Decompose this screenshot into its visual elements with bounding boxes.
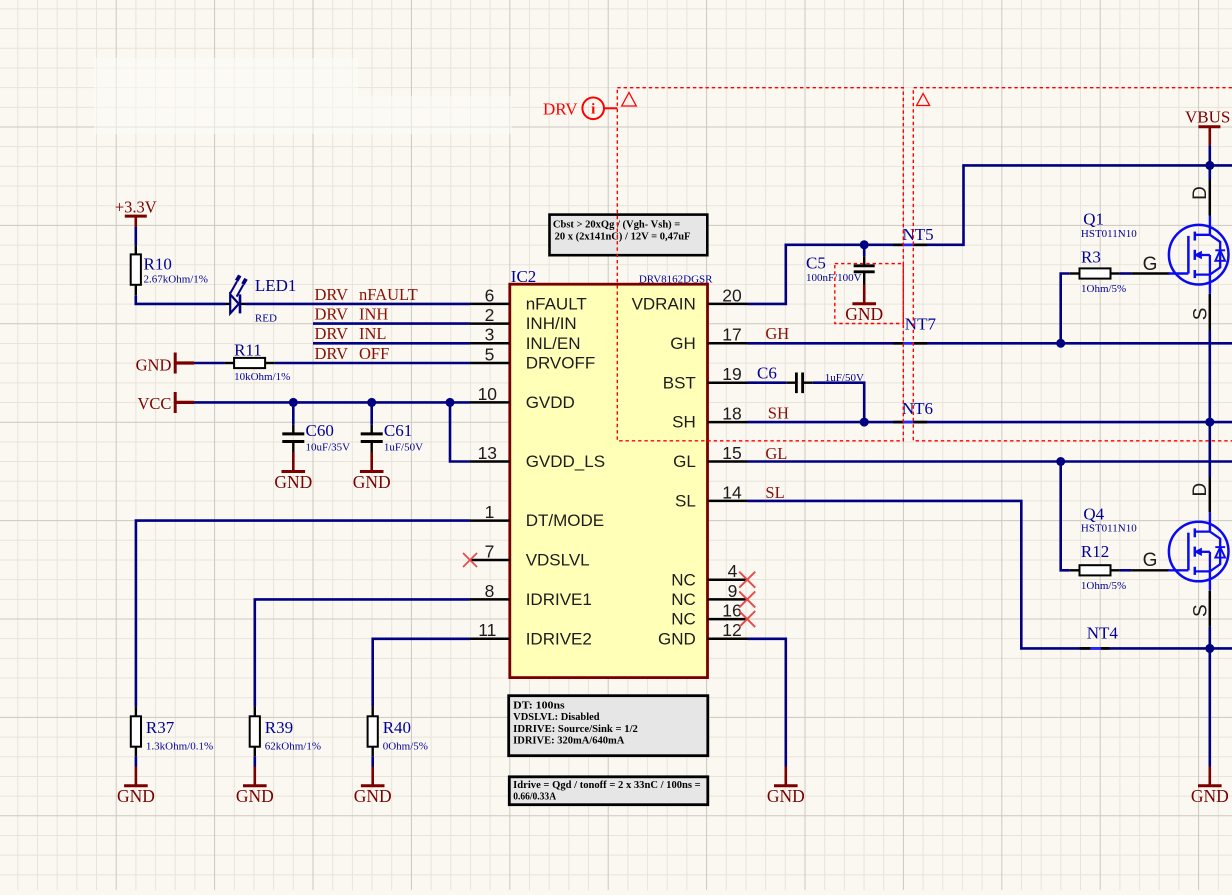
capacitor C6 [786, 382, 795, 384]
svg-text:GND: GND [136, 355, 172, 374]
IC2 pin 6 (nFAULT) [470, 303, 510, 306]
svg-text:R40: R40 [383, 718, 411, 737]
wire VBUS to NT5 rail [1209, 145, 1212, 165]
svg-text:10uF/35V: 10uF/35V [306, 442, 351, 454]
ground below C5 [863, 285, 866, 304]
ground below R37 [135, 756, 138, 766]
svg-text:10: 10 [478, 384, 498, 404]
junction GH/R3 [1056, 339, 1065, 348]
junction [289, 398, 298, 407]
Q1 source pin [1209, 294, 1212, 330]
wire pin 19 BST to C6 [748, 381, 787, 384]
svg-text:VDSLVL: VDSLVL [526, 551, 590, 570]
svg-text:20: 20 [722, 285, 742, 305]
svg-text:IDRIVE1: IDRIVE1 [526, 590, 592, 609]
ground below Q4 [1209, 767, 1212, 786]
net label NT6 anchor marker [893, 421, 903, 424]
svg-text:INH/IN: INH/IN [526, 314, 577, 333]
svg-text:10kOhm/1%: 10kOhm/1% [234, 371, 290, 383]
svg-text:i: i [591, 102, 595, 118]
resistor R11 [224, 362, 234, 364]
wire pin 18 SH to right edge [748, 421, 1232, 424]
IC2 pin 2 (INH/IN) [470, 322, 510, 325]
svg-text:NC: NC [671, 610, 696, 629]
IC2 pin 17 (GH) [708, 342, 748, 345]
svg-text:S: S [1191, 308, 1212, 321]
dashed region box 2 [913, 88, 1232, 441]
svg-text:16: 16 [722, 601, 741, 621]
resistor R37 [135, 707, 137, 717]
svg-text:GND: GND [236, 786, 274, 806]
svg-text:OFF: OFF [359, 344, 389, 363]
junction C5/NT5 [860, 240, 869, 249]
svg-text:GH: GH [670, 334, 696, 353]
svg-text:100nF/100V: 100nF/100V [806, 272, 862, 284]
ground at pin 12 [784, 767, 787, 786]
svg-text:S: S [1191, 604, 1212, 617]
wire R10 to LED1 [136, 295, 226, 304]
svg-text:NC: NC [671, 570, 696, 589]
svg-text:GVDD: GVDD [526, 393, 575, 412]
svg-text:DRVOFF: DRVOFF [526, 354, 596, 373]
svg-text:R10: R10 [144, 255, 172, 274]
svg-text:GND: GND [354, 786, 392, 806]
svg-text:GND: GND [658, 629, 696, 648]
svg-text:SL: SL [675, 492, 696, 511]
svg-text:C60: C60 [306, 421, 334, 440]
capacitor C61 [370, 402, 373, 424]
svg-text:4: 4 [728, 561, 738, 581]
note box Idrive formula [509, 777, 708, 805]
Q4 drain pin [1209, 422, 1212, 477]
note box DT/VDSLVL/IDRIVE [509, 696, 708, 756]
svg-text:DT: 100ns: DT: 100ns [513, 701, 565, 712]
junction [367, 398, 376, 407]
svg-text:R11: R11 [234, 340, 262, 359]
ground below R39 [254, 756, 257, 766]
wire VCC branch to pin 13 [450, 402, 470, 461]
svg-text:NC: NC [671, 590, 696, 609]
svg-text:IDRIVE2: IDRIVE2 [526, 629, 592, 648]
junction [446, 398, 455, 407]
ground below R40 [371, 756, 374, 766]
no-ERC cross on NC pin [739, 591, 755, 607]
svg-text:G: G [1143, 550, 1158, 571]
svg-text:19: 19 [722, 364, 741, 384]
svg-text:7: 7 [485, 541, 495, 561]
transistor Q1 [1169, 225, 1229, 285]
svg-text:NT4: NT4 [1087, 624, 1119, 643]
svg-text:NT6: NT6 [902, 399, 933, 418]
svg-text:GH: GH [765, 324, 789, 343]
resistor R39 [254, 707, 256, 717]
Q1 drain pin [1209, 165, 1212, 180]
svg-text:2.67kOhm/1%: 2.67kOhm/1% [144, 274, 208, 286]
svg-text:DRV8162DGSR: DRV8162DGSR [639, 273, 713, 285]
svg-text:SL: SL [765, 483, 784, 502]
wire pin 12 to ground [748, 639, 786, 767]
svg-text:1.3kOhm/0.1%: 1.3kOhm/0.1% [146, 741, 213, 753]
svg-text:VDRAIN: VDRAIN [632, 295, 696, 314]
svg-text:+3.3V: +3.3V [115, 198, 157, 217]
wire/pin R3 to Q1 gate [1111, 272, 1120, 274]
capacitor C60 [292, 402, 295, 424]
IC2 pin 5 (DRVOFF) [470, 362, 510, 365]
svg-text:1Ohm/5%: 1Ohm/5% [1081, 580, 1126, 592]
svg-text:C5: C5 [806, 253, 826, 272]
svg-text:12: 12 [722, 620, 741, 640]
wire pin to R40 [373, 639, 470, 707]
wire pin to R37 [136, 521, 470, 707]
IC2 pin 15 (GL) [708, 460, 748, 463]
resistor R3 [1070, 272, 1080, 274]
net label NT4 anchor marker [1080, 647, 1091, 650]
svg-text:11: 11 [478, 620, 496, 640]
dashed region triangle marker 1 [622, 93, 637, 107]
svg-text:62kOhm/1%: 62kOhm/1% [265, 741, 321, 753]
svg-text:C6: C6 [757, 364, 777, 383]
wire Q1 source to SH [1209, 330, 1212, 422]
capacitor C5 [863, 245, 866, 256]
IC2 pin 7 (VDSLVL) [470, 559, 510, 562]
wire pin 20 VDRAIN up and right (net NT5) [748, 165, 1232, 304]
resistor R40 [372, 707, 374, 717]
svg-text:DRV: DRV [315, 324, 349, 343]
svg-text:HST011N10: HST011N10 [1081, 228, 1137, 240]
svg-text:IDRIVE: Source/Sink = 1/2: IDRIVE: Source/Sink = 1/2 [513, 724, 638, 735]
svg-text:BST: BST [663, 373, 696, 392]
wire Q4 source to GND [1209, 627, 1212, 767]
svg-text:DT/MODE: DT/MODE [526, 511, 604, 530]
wire pin 17 GH to right edge [748, 342, 1232, 345]
LED LED1 [226, 303, 231, 305]
svg-text:INL/EN: INL/EN [526, 334, 581, 353]
IC2 pin 20 (VDRAIN) [708, 303, 748, 306]
svg-text:Q1: Q1 [1083, 209, 1104, 228]
dashed region triangle marker 2 [917, 94, 930, 106]
no-ERC cross on NC pin [739, 572, 755, 588]
wire GND port to R11 [194, 362, 224, 365]
resistor R10 [135, 245, 137, 254]
junction C6/SH [860, 418, 869, 427]
svg-text:NT7: NT7 [905, 314, 937, 333]
resistor R12 [1070, 569, 1080, 571]
wire LED1 to pin 6 (DRV_nFAULT net) [246, 303, 471, 306]
svg-text:R37: R37 [146, 718, 175, 737]
wire/pin R12 to Q4 gate [1111, 569, 1120, 571]
svg-text:D: D [1190, 483, 1211, 497]
wire GH junction up to R3 [1061, 274, 1070, 344]
svg-text:1Ohm/5%: 1Ohm/5% [1081, 283, 1126, 295]
svg-text:13: 13 [478, 443, 497, 463]
IC2 pin 4 (NC) [708, 578, 748, 581]
svg-text:RED: RED [255, 313, 277, 325]
svg-text:GND: GND [845, 304, 883, 324]
svg-text:0Ohm/5%: 0Ohm/5% [383, 741, 428, 753]
dashed region box 1 [617, 88, 903, 441]
svg-text:IC2: IC2 [511, 267, 537, 286]
svg-text:HST011N10: HST011N10 [1081, 523, 1137, 535]
op-amp/driver IC2 body [510, 284, 708, 677]
svg-text:6: 6 [485, 285, 495, 305]
ground below C60 [292, 452, 295, 471]
svg-text:VDSLVL: Disabled: VDSLVL: Disabled [513, 712, 600, 723]
svg-text:GND: GND [117, 786, 155, 806]
svg-text:1: 1 [485, 502, 495, 522]
junction GL/R12 [1056, 457, 1065, 466]
note box Cbst formula [550, 215, 708, 256]
svg-text:R12: R12 [1081, 542, 1109, 561]
svg-text:IDRIVE: 320mA/640mA: IDRIVE: 320mA/640mA [513, 736, 625, 747]
IC2 pin 12 (GND) [708, 638, 748, 641]
svg-text:GND: GND [274, 472, 312, 492]
svg-text:GVDD_LS: GVDD_LS [526, 452, 605, 471]
svg-text:20 x (2x141nC) / 12V = 0,47uF: 20 x (2x141nC) / 12V = 0,47uF [555, 232, 691, 243]
IC2 pin 3 (INL/EN) [470, 342, 510, 345]
svg-text:VBUS: VBUS [1185, 108, 1230, 127]
svg-text:INL: INL [359, 324, 387, 343]
net label NT5 anchor marker [893, 244, 903, 247]
IC2 pin 14 (SL) [708, 500, 748, 503]
svg-text:GND: GND [1191, 786, 1229, 806]
wire R11 to pin 5 [275, 362, 470, 365]
wire pin 15 GL to right edge [748, 460, 1232, 463]
svg-text:18: 18 [722, 404, 741, 424]
wire DRV_INL to pin 3 [313, 342, 470, 345]
svg-text:2: 2 [485, 305, 495, 325]
dashed inner box around C5 [835, 264, 904, 324]
svg-text:DRV: DRV [315, 344, 349, 363]
IC2 pin 8 (IDRIVE1) [470, 598, 510, 601]
IC2 pin 10 (GVDD) [470, 401, 510, 404]
svg-text:14: 14 [722, 482, 742, 502]
svg-text:GND: GND [353, 472, 391, 492]
svg-text:9: 9 [728, 581, 738, 601]
wire GL junction down to R12 [1061, 462, 1070, 571]
wire pin to R39 [255, 599, 470, 706]
svg-text:SH: SH [768, 404, 789, 423]
svg-text:5: 5 [485, 344, 495, 364]
wire DRV_INH to pin 2 [313, 322, 470, 325]
svg-text:D: D [1190, 186, 1211, 200]
wire VCC to pin 10 [194, 401, 470, 404]
no-ERC cross on NC pin [739, 611, 755, 627]
svg-text:0.66/0.33A: 0.66/0.33A [513, 792, 556, 803]
Q4 source pin [1209, 591, 1212, 627]
IC2 pin 19 (BST) [708, 381, 748, 384]
IC2 pin 1 (DT/MODE) [470, 519, 510, 522]
svg-text:R39: R39 [265, 718, 293, 737]
IC2 pin 13 (GVDD_LS) [470, 460, 510, 463]
wire C6 to SH [813, 383, 864, 422]
IC2 pin 9 (NC) [708, 598, 748, 601]
junction NT4/Q4 source [1205, 644, 1214, 653]
svg-text:G: G [1143, 254, 1158, 275]
svg-text:SH: SH [672, 413, 696, 432]
svg-text:Q4: Q4 [1083, 504, 1104, 523]
svg-text:DRV: DRV [315, 285, 349, 304]
net label NT7 anchor marker [893, 342, 903, 345]
IC2 pin 16 (NC) [708, 618, 748, 621]
svg-text:DRV: DRV [543, 100, 578, 119]
junction SH/Q4 drain [1205, 418, 1214, 427]
no-ERC cross on pin 7 [463, 553, 477, 567]
svg-text:8: 8 [485, 581, 495, 601]
junction VBUS/drain [1205, 161, 1214, 170]
svg-text:C61: C61 [384, 421, 412, 440]
wire pin 14 SL down to NT4 rail [748, 501, 1232, 649]
svg-text:INH: INH [359, 305, 388, 324]
svg-text:nFAULT: nFAULT [359, 285, 418, 304]
IC2 pin 18 (SH) [708, 421, 748, 424]
svg-text:17: 17 [722, 325, 741, 345]
wire +3.3V to R10 [135, 227, 138, 245]
ground below C61 [370, 452, 373, 471]
svg-text:GL: GL [673, 452, 696, 471]
transistor Q4 [1169, 522, 1229, 582]
svg-text:DRV: DRV [315, 305, 349, 324]
IC2 pin 11 (IDRIVE2) [470, 638, 510, 641]
svg-text:LED1: LED1 [255, 276, 297, 295]
svg-text:15: 15 [722, 443, 741, 463]
svg-text:nFAULT: nFAULT [526, 295, 587, 314]
svg-text:GND: GND [767, 786, 805, 806]
svg-text:Idrive = Qgd / tonoff = 2 x 33: Idrive = Qgd / tonoff = 2 x 33nC / 100ns… [513, 780, 701, 791]
svg-text:3: 3 [485, 325, 495, 345]
svg-text:R3: R3 [1081, 247, 1101, 266]
svg-text:GL: GL [765, 444, 787, 463]
svg-text:NT5: NT5 [903, 225, 934, 244]
svg-text:VCC: VCC [137, 394, 171, 413]
svg-text:1uF/50V: 1uF/50V [384, 442, 423, 454]
